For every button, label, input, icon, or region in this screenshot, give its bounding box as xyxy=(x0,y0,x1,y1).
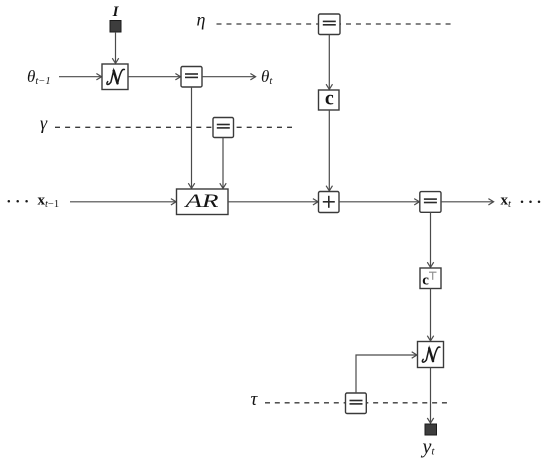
wire N2 to y_t xyxy=(427,368,433,424)
label theta_t xyxy=(261,67,273,87)
svg-text:xt−1: xt−1 xyxy=(38,193,60,210)
observed node y_t (filled square) xyxy=(425,424,437,435)
plus box xyxy=(319,192,340,213)
wire N1 to EQ1 xyxy=(128,74,181,80)
equals box EQ1 xyxy=(181,67,202,88)
AR box xyxy=(177,189,229,215)
label eta xyxy=(197,10,206,30)
dashed wire eta xyxy=(217,23,451,25)
svg-text:θt−1: θt−1 xyxy=(27,67,51,87)
svg-text:γ: γ xyxy=(40,113,48,133)
svg-text:c: c xyxy=(422,273,429,289)
label I xyxy=(112,4,120,20)
svg-text:I: I xyxy=(112,4,120,20)
dashed wire gamma xyxy=(55,126,292,128)
svg-text:θt: θt xyxy=(261,67,273,87)
observed node I (filled square) xyxy=(110,21,121,33)
svg-text:τ: τ xyxy=(251,389,259,410)
equals box EQ3 xyxy=(213,118,234,138)
svg-text:xt: xt xyxy=(501,193,513,210)
label tau xyxy=(251,389,259,410)
gaussian node N2 (script N) xyxy=(418,342,444,368)
transpose box CT (c transposed) xyxy=(420,268,441,289)
wire AR to plus xyxy=(228,199,318,205)
label y_t xyxy=(421,436,436,458)
equals box EQ5 xyxy=(346,393,367,414)
wire C1 to plus xyxy=(326,110,332,191)
wire EQ5 to N2 xyxy=(356,352,417,393)
label theta_t-1 xyxy=(27,67,51,87)
wire EQ3 to AR xyxy=(220,138,226,189)
svg-text:yt: yt xyxy=(421,436,436,458)
dashed wire tau xyxy=(265,402,447,404)
svg-text:AR: AR xyxy=(183,191,219,212)
wire EQ4 to x_t xyxy=(441,199,494,205)
left ellipsis xyxy=(8,200,28,203)
wire EQ1 to AR xyxy=(188,87,194,188)
wire EQ1 to theta_t xyxy=(202,74,256,80)
wire I to N1 xyxy=(112,32,118,63)
wire EQ2 to C1 xyxy=(326,35,332,90)
wire EQ4 to CT xyxy=(427,212,433,267)
wire theta_t-1 to N1 xyxy=(59,74,102,80)
coefficient box C1 (c) xyxy=(319,87,340,110)
wire x_t-1 to AR xyxy=(70,199,176,205)
right ellipsis xyxy=(521,200,541,203)
equals box EQ4 xyxy=(420,192,441,213)
svg-text:c: c xyxy=(325,87,334,109)
equals box EQ2 xyxy=(319,14,341,35)
label gamma xyxy=(40,113,48,133)
gaussian node N1 (script N) xyxy=(102,64,128,90)
label x_t-1 xyxy=(38,193,60,210)
wire CT to N2 xyxy=(427,289,433,341)
wire plus to EQ4 xyxy=(339,199,419,205)
svg-text:η: η xyxy=(197,10,206,30)
label x_t xyxy=(501,193,513,210)
